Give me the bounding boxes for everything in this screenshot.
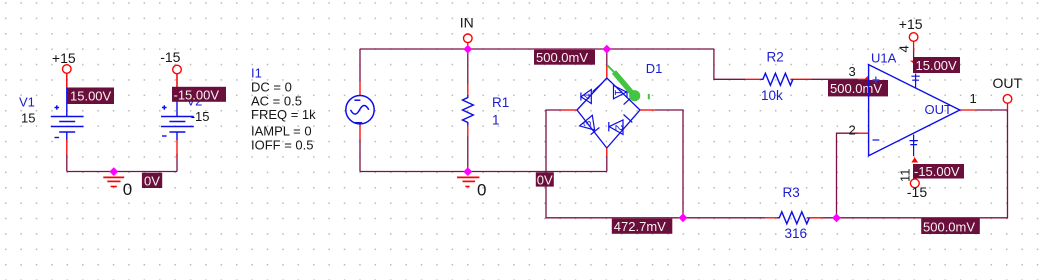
pin red stub V1 top	[66, 73, 68, 87]
wire V2 bottom to ground rail	[176, 154, 178, 172]
node circle OUT	[1003, 95, 1012, 104]
junction diamond R1 ground	[463, 167, 472, 176]
bias arrow op-amp V-	[911, 157, 918, 162]
pin red stub V2 bottom	[176, 140, 178, 158]
bridge diode 1 (top-right)	[614, 86, 633, 105]
bias label box 0V (V1/V2 ground)	[142, 173, 162, 188]
svg-text:15.00V: 15.00V	[916, 58, 958, 73]
svg-text:1: 1	[970, 91, 977, 106]
svg-text:4: 4	[897, 45, 912, 52]
wire I1 top vertical	[359, 49, 361, 81]
battery V1	[51, 88, 84, 141]
svg-text:472.7mV: 472.7mV	[614, 219, 666, 234]
bias label box 500.0mV (pin3)	[828, 80, 888, 96]
wire R2 to op-amp pin3	[812, 78, 859, 80]
svg-text:FREQ = 1k: FREQ = 1k	[251, 107, 316, 122]
wire bridge left corner to bottom rail	[546, 110, 765, 218]
current probe marker (green)	[607, 65, 631, 92]
wire V1 bottom to ground rail	[66, 154, 68, 172]
ground symbol 0 (R1 rail)	[457, 177, 479, 186]
svg-text:OUT: OUT	[993, 75, 1023, 91]
wire V1 top (node to battery)	[66, 73, 68, 87]
pin red stub V1 bottom	[66, 140, 68, 155]
wire bridge top stub upper	[606, 49, 608, 66]
ground symbol 0 (V1/V2 rail)	[103, 177, 124, 186]
svg-text:+15: +15	[899, 16, 923, 32]
svg-text:R2: R2	[767, 49, 784, 64]
wire ground rail V1-V2	[67, 171, 177, 173]
svg-text:R1: R1	[492, 95, 509, 110]
pin red stub IN node	[467, 43, 469, 49]
bias label box 0V (R1 ground)	[536, 172, 554, 186]
node circle V1 +15	[63, 65, 72, 74]
pin red stub V2 top	[176, 74, 178, 87]
wire V2 top (node to battery)	[176, 74, 178, 88]
svg-text:500.0mV: 500.0mV	[830, 81, 882, 96]
wire R1 top lead	[467, 49, 469, 84]
pin red stub R1 top	[467, 84, 469, 95]
node circle op-amp -15	[910, 179, 919, 188]
svg-text:I1: I1	[251, 66, 262, 81]
pin red stub R2 left	[745, 78, 760, 80]
pin red stub R2 right	[790, 78, 811, 80]
svg-text:2: 2	[849, 122, 856, 137]
svg-text:IN: IN	[460, 15, 474, 31]
svg-text:3: 3	[849, 64, 856, 79]
op-amp V- power pin glyph	[910, 135, 918, 157]
op-amp minus mark	[873, 139, 880, 141]
svg-text:0V: 0V	[144, 173, 160, 188]
bias arrow pin3	[864, 76, 868, 80]
current source I1	[346, 96, 374, 124]
svg-text:0V: 0V	[537, 172, 553, 187]
op-amp V+ power pin glyph	[911, 74, 919, 89]
bias label box -15.00V (op-amp V-)	[913, 164, 964, 179]
svg-text:500.0mV: 500.0mV	[536, 50, 588, 65]
bias arrow op-amp V+	[910, 61, 913, 64]
svg-text:0: 0	[477, 181, 486, 200]
resistor R1	[463, 95, 474, 125]
svg-text:OUT: OUT	[925, 102, 953, 117]
wire I1 bottom vertical	[359, 139, 361, 172]
bridge diode 3 (bottom-left)	[580, 115, 600, 134]
pin red stub bridge left	[561, 109, 577, 111]
svg-text:2: 2	[612, 125, 624, 131]
wire bridge bottom to ground rail	[606, 156, 608, 172]
bias label box 500.0mV (output)	[921, 218, 980, 234]
svg-text:1: 1	[492, 113, 500, 128]
pin red stub I1 bottom	[359, 124, 361, 139]
probe I letter (green)	[648, 94, 650, 99]
pin red stub bridge top	[606, 66, 608, 78]
svg-text:U1A: U1A	[871, 50, 897, 65]
wire top rail down to R2	[714, 49, 746, 79]
svg-text:-15: -15	[191, 109, 210, 124]
wire top rail IN	[360, 48, 714, 50]
pin red stub R3 right	[807, 217, 823, 219]
pin red stub R1 bottom	[467, 125, 469, 136]
pin red stub op-amp pin2	[858, 132, 869, 134]
svg-text:-15.00V: -15.00V	[914, 164, 960, 179]
wire bottom rail R3 to feedback node and out	[823, 110, 1008, 218]
wire feedback node to op-amp pin2	[837, 133, 859, 218]
bridge diode 2 (bottom-right)	[609, 115, 633, 135]
svg-text:IOFF = 0.5: IOFF = 0.5	[251, 137, 314, 152]
junction diamond ground V1/V2	[109, 167, 118, 176]
bias label box 500.0mV (IN)	[534, 50, 595, 65]
bias label box -15.00V (V2)	[172, 87, 226, 102]
op-amp plus mark overdraw	[873, 77, 880, 84]
svg-text:4: 4	[582, 93, 594, 99]
svg-text:V1: V1	[19, 94, 35, 109]
op-amp plus mark	[873, 77, 880, 84]
svg-text:316: 316	[785, 226, 808, 241]
bridge diode 4 (top-left)	[581, 83, 602, 103]
node circle op-amp +15	[909, 33, 918, 42]
node circle V2 -15	[173, 65, 182, 74]
svg-text:15: 15	[21, 110, 35, 125]
diode bridge D1 outline sides	[577, 78, 640, 148]
wire bottom ground rail I1-R1-bridge	[360, 171, 607, 173]
bias label box 15.00V (op-amp V+)	[913, 57, 960, 73]
op-amp left edge overdraw on bias box	[868, 79, 870, 97]
svg-text:+15: +15	[52, 50, 76, 66]
pin red stub OUT node	[1007, 103, 1009, 110]
pin red stub I1 top	[359, 81, 361, 96]
junction diamond feedback node	[832, 214, 841, 223]
wire bridge right corner down	[655, 110, 683, 218]
wire R1 bottom lead	[467, 136, 469, 172]
pin red stub bridge bottom	[606, 148, 608, 156]
svg-text:-15: -15	[160, 49, 180, 65]
svg-text:3: 3	[582, 121, 594, 127]
node circle IN	[464, 34, 473, 43]
svg-text:-15.00V: -15.00V	[174, 87, 220, 102]
junction diamond bottom rail bridge-right	[679, 213, 688, 222]
wire op-amp V+ node down	[913, 50, 915, 58]
svg-text:D1: D1	[646, 61, 663, 76]
battery V2	[161, 88, 194, 141]
junction diamond IN node	[463, 45, 472, 54]
bias label box 15.00V (V1)	[67, 88, 114, 105]
resistor R2	[760, 73, 793, 85]
svg-text:1: 1	[612, 89, 624, 95]
bias label box 472.7mV	[612, 219, 673, 234]
pin red stub op-amp V+	[913, 41, 915, 51]
pin red stub R3 left	[765, 217, 776, 219]
svg-text:500.0mV: 500.0mV	[923, 219, 975, 234]
svg-text:AC = 0.5: AC = 0.5	[251, 93, 302, 108]
svg-text:11: 11	[898, 169, 913, 183]
svg-text:R3: R3	[783, 185, 800, 200]
op-amp U1A triangle	[869, 65, 960, 156]
svg-text:-15: -15	[907, 184, 927, 200]
svg-text:10k: 10k	[761, 88, 783, 103]
junction diamond bridge top	[602, 45, 611, 54]
resistor R3	[777, 212, 810, 224]
svg-text:15.00V: 15.00V	[70, 89, 112, 104]
pin red stub op-amp output	[960, 109, 977, 111]
svg-text:DC = 0: DC = 0	[251, 79, 292, 94]
pin red stub bridge right	[640, 109, 655, 111]
svg-text:0: 0	[123, 180, 132, 199]
pin red stub op-amp pin3	[858, 78, 869, 80]
